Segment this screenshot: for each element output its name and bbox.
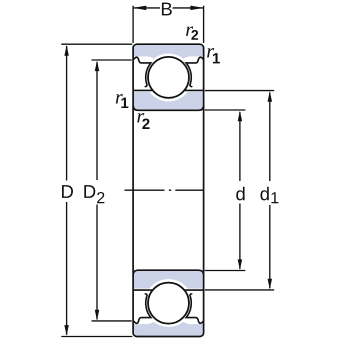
B dimension line (133, 7, 204, 9)
d dimension line (239, 112, 241, 269)
ball upper (148, 57, 189, 98)
bore line upper (133, 106, 204, 110)
label B (162, 3, 172, 16)
label d (236, 187, 244, 201)
outer ring notch + flat + raceway, upper-right (186, 57, 204, 86)
outer ring notch + flat + raceway, lower-right (186, 294, 204, 323)
label D2 (84, 185, 104, 203)
bore line lower (133, 270, 204, 274)
inner ring lower blue fill (134, 271, 203, 289)
outer ring upper blue fill (134, 45, 203, 59)
ball lower (148, 283, 189, 324)
d1 dimension line (269, 93, 271, 289)
outer ring notch + flat + raceway, lower-left (133, 294, 151, 323)
B extension lines (133, 6, 204, 43)
outer ring notch + flat + raceway, upper-left (133, 57, 151, 86)
D2 extension lines (92, 60, 132, 321)
d extension lines (205, 110, 246, 271)
D dimension line (66, 46, 68, 335)
d1 extension lines (205, 91, 274, 290)
label r1 left (116, 94, 129, 108)
D extension lines (61, 44, 132, 336)
outer ring lower blue fill (134, 322, 203, 336)
bearing silhouette rounded rect (133, 44, 204, 336)
label r1 right (207, 48, 220, 63)
label r2 top right (186, 26, 198, 39)
inner ring upper blue fill (134, 92, 203, 110)
label D (62, 185, 73, 198)
label r2 left lower (137, 113, 149, 129)
face lines upper (133, 89, 204, 91)
label d1 (260, 187, 278, 203)
centerline (125, 189, 204, 191)
D2 dimension line (96, 62, 98, 320)
face lines lower (133, 289, 204, 291)
